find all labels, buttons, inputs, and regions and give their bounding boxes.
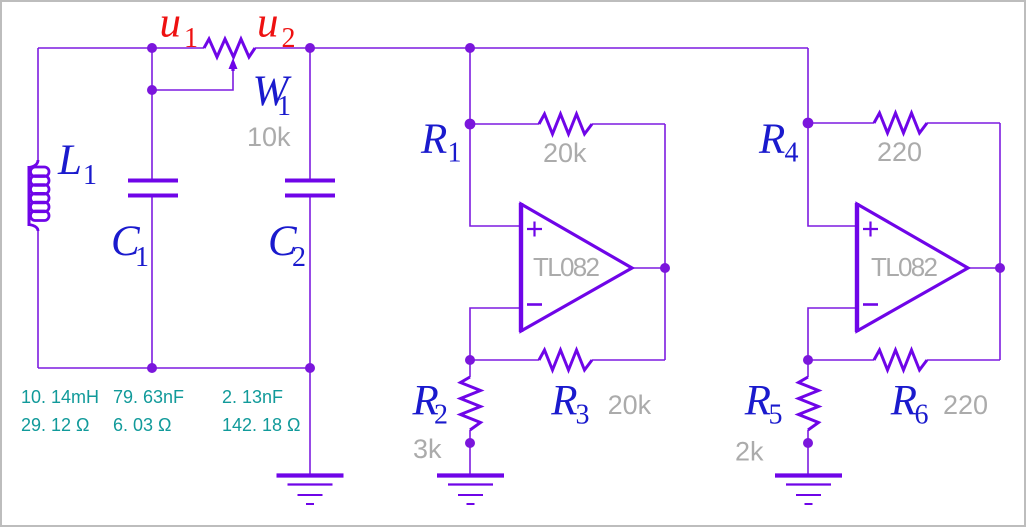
measurement value C2 reactance 142.18 ohm — [222, 415, 301, 435]
svg-text:u: u — [257, 2, 279, 47]
potentiometer W1 wiper arrow — [229, 58, 238, 71]
wire drop from top rail to R1 node — [469, 48, 471, 124]
measurement value C2 capacitance 2.13nF — [222, 387, 283, 407]
svg-text:3k: 3k — [413, 434, 442, 464]
svg-text:2: 2 — [282, 23, 296, 54]
part label TL082 opamp U2 — [871, 252, 938, 282]
junction opamp1 output — [660, 263, 670, 273]
wire bottom rail left loop — [38, 367, 310, 369]
label R1 — [420, 116, 462, 169]
value label 20k for R1 — [543, 138, 587, 168]
wire R6 right lead — [927, 359, 1000, 361]
node label u1 — [160, 0, 199, 54]
wire C1 lower lead — [151, 197, 153, 368]
label C2 — [268, 218, 306, 273]
svg-text:R: R — [890, 377, 917, 424]
resistor R1 — [539, 114, 592, 134]
capacitor C1 — [128, 181, 178, 196]
label W1 — [253, 68, 293, 122]
svg-text:1: 1 — [277, 91, 291, 122]
value label 220 for R6 — [943, 390, 988, 420]
svg-text:1: 1 — [135, 242, 149, 273]
op-amp U1 minus input sign — [527, 303, 542, 306]
wire C2 upper lead from node u2 — [309, 48, 311, 179]
label L1 — [57, 137, 97, 191]
junction opamp2 output — [995, 263, 1005, 273]
svg-text:1: 1 — [448, 138, 462, 169]
inductor L1 — [29, 160, 49, 231]
junction C2 bottom rail — [305, 363, 315, 373]
svg-text:220: 220 — [877, 137, 922, 167]
svg-text:R: R — [744, 377, 771, 424]
label R2 — [412, 377, 449, 430]
junction R4 node — [803, 118, 814, 129]
wire to noninverting input opamp1 — [470, 124, 521, 226]
junction R2 ground — [465, 438, 475, 448]
wire R1 right lead — [592, 123, 665, 125]
resistor R4 — [874, 113, 927, 133]
svg-text:10. 14mH: 10. 14mH — [21, 387, 99, 407]
wire left vertical L1 branch upper lead — [37, 48, 39, 162]
label R6 — [890, 377, 929, 430]
wire R5 upper lead — [807, 360, 809, 377]
wire opamp2 output stub — [968, 267, 1000, 269]
svg-text:220: 220 — [943, 390, 988, 420]
value label 3k for R2 — [413, 434, 442, 464]
op-amp U2 plus input sign — [863, 222, 878, 237]
svg-text:6: 6 — [915, 400, 929, 431]
measurement value C1 capacitance 79.63nF — [113, 387, 184, 407]
resistor R2 — [461, 377, 481, 430]
svg-text:4: 4 — [785, 138, 799, 169]
wire ground stem below R5 — [807, 443, 809, 474]
label C1 — [111, 218, 149, 273]
wire from inverting input opamp1 — [470, 308, 521, 360]
resistor R5 — [799, 377, 819, 430]
wire R5 lower lead — [807, 430, 809, 443]
svg-text:1: 1 — [184, 23, 198, 54]
junction node u2 — [305, 43, 315, 53]
svg-text:2. 13nF: 2. 13nF — [222, 387, 283, 407]
op-amp U1 plus input sign — [527, 222, 542, 237]
junction R2 R3 inverting node — [465, 355, 475, 365]
measurement value C1 reactance 6.03 ohm — [113, 415, 172, 435]
value label 2k for R5 — [735, 437, 764, 467]
wire R3 right lead — [592, 359, 665, 361]
wire from inverting input opamp2 — [808, 308, 857, 360]
measurement value L1 reactance 29.12 ohm — [21, 415, 90, 435]
ground below R5 — [775, 476, 842, 505]
wire top rail from L1 top to second stage drop — [38, 47, 808, 49]
svg-text:20k: 20k — [543, 138, 587, 168]
op-amp U2 minus input sign — [863, 303, 878, 306]
wire R2 upper lead — [469, 360, 471, 377]
svg-text:R: R — [550, 377, 577, 424]
wire drop from top rail to R4 node — [807, 48, 809, 123]
potentiometer W1 body — [204, 39, 255, 57]
wire R6 left lead — [808, 359, 874, 361]
svg-text:10k: 10k — [247, 122, 291, 152]
wire R4 left lead — [808, 122, 874, 124]
value label 20k for R3 — [608, 390, 652, 420]
svg-text:29. 12 Ω: 29. 12 Ω — [21, 415, 90, 435]
wire C2 lower lead — [309, 197, 311, 368]
svg-text:R: R — [758, 116, 785, 163]
svg-text:1: 1 — [83, 160, 97, 191]
wire feedback right vertical opamp1 — [664, 124, 666, 360]
svg-text:TL082: TL082 — [533, 252, 600, 282]
node label u2 — [257, 0, 296, 54]
svg-text:142. 18 Ω: 142. 18 Ω — [222, 415, 301, 435]
part label TL082 opamp U1 — [533, 252, 600, 282]
junction top rail to R1 drop — [465, 43, 475, 53]
svg-text:R: R — [420, 116, 447, 163]
junction R1 node — [465, 119, 476, 130]
svg-text:6. 03 Ω: 6. 03 Ω — [113, 415, 172, 435]
wire left vertical L1 branch lower lead — [37, 228, 39, 368]
wire ground stem below C2 — [309, 368, 311, 474]
svg-text:L: L — [57, 137, 82, 184]
label R3 — [550, 377, 589, 430]
junction R5 R6 inverting node — [803, 355, 813, 365]
wire potentiometer wiper to node u1 — [152, 66, 233, 90]
svg-text:2: 2 — [434, 400, 448, 431]
wire R1 left lead — [470, 123, 539, 125]
svg-text:2k: 2k — [735, 437, 764, 467]
svg-text:5: 5 — [769, 400, 783, 431]
resistor R3 — [539, 350, 592, 370]
value label 220 for R4 — [877, 137, 922, 167]
junction C1 bottom rail — [147, 363, 157, 373]
wire ground stem below R2 — [469, 443, 471, 474]
svg-text:3: 3 — [576, 400, 590, 431]
op-amp U2 TL082 triangle — [857, 203, 968, 332]
ground below C2 — [277, 476, 344, 505]
svg-text:2: 2 — [292, 242, 306, 273]
svg-text:TL082: TL082 — [871, 252, 938, 282]
label R4 — [758, 116, 799, 169]
wire to noninverting input opamp2 — [808, 123, 857, 226]
wire R2 lower lead — [469, 430, 471, 443]
op-amp U1 TL082 triangle — [521, 203, 632, 332]
capacitor C2 — [285, 181, 335, 196]
wire C1 upper lead from node u1 — [151, 48, 153, 179]
junction node u1 — [147, 43, 157, 53]
wire R3 left lead — [470, 359, 539, 361]
wire R4 right lead — [927, 122, 1000, 124]
measurement value L1 inductance 10.14mH — [21, 387, 99, 407]
junction wiper on C1 branch — [147, 85, 157, 95]
label R5 — [744, 377, 783, 430]
svg-text:79. 63nF: 79. 63nF — [113, 387, 184, 407]
value label 10k for W1 — [247, 122, 291, 152]
wire feedback right vertical opamp2 — [999, 123, 1001, 360]
svg-text:u: u — [160, 2, 182, 47]
wire opamp1 output stub — [632, 267, 665, 269]
resistor R6 — [874, 350, 927, 370]
ground below R2 — [437, 476, 504, 505]
svg-text:20k: 20k — [608, 390, 652, 420]
junction R5 ground — [803, 438, 813, 448]
